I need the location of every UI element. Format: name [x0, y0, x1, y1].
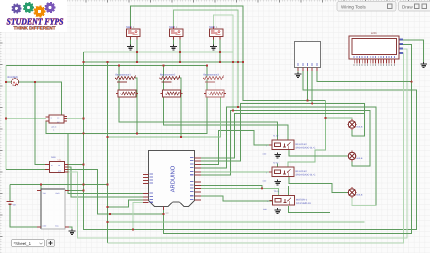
wire battery loop [10, 185, 41, 228]
wire btn1 signal drop [136, 37, 138, 63]
svg-text:IN: IN [51, 118, 52, 119]
wire btn1 gnd lead [130, 37, 132, 46]
wire rail y222 [108, 221, 365, 223]
wire relay3 top-right stub [288, 186, 290, 196]
wire btn2 signal drop [179, 37, 181, 63]
wire net-SW1 drop to relay2 [288, 101, 326, 168]
wire sensor3 top lead [206, 66, 208, 77]
wire relay3 top-left to arduino [201, 188, 279, 195]
push button SW2 [169, 25, 183, 39]
svg-text:LCD: LCD [371, 32, 377, 35]
wire sensor1 right drop [135, 78, 137, 134]
push button SW3 [209, 25, 223, 39]
wire U5 light input [6, 118, 46, 120]
ground under module M1 [69, 229, 76, 234]
battery B1 Vin [7, 202, 16, 206]
wire U5 light output [67, 118, 84, 120]
wire sensor2 mid lead [163, 80, 165, 91]
wire sensor3 right column [108, 97, 221, 137]
svg-text:Wiring Tools: Wiring Tools [341, 4, 366, 9]
wire arduino pin D11 to v107 [108, 200, 144, 207]
svg-text:T3 rly: T3 rly [274, 190, 279, 193]
svg-text:GND: GND [263, 153, 267, 155]
svg-text:flamesensor2: flamesensor2 [160, 73, 175, 76]
svg-text:TXD: TXD [43, 193, 46, 195]
svg-text:VCC: VCC [55, 225, 59, 227]
svg-text:flamesensor3: flamesensor3 [204, 73, 219, 76]
svg-text:GND: GND [58, 170, 61, 172]
buzzer LS1 [8, 76, 19, 86]
wire sensor1 mid lead [118, 80, 120, 91]
wire module PWR out [69, 190, 84, 192]
wire IC2 pin2 lead [6, 169, 45, 171]
svg-text:I: I [267, 200, 268, 202]
svg-text:MOTOR-1: MOTOR-1 [296, 199, 307, 202]
wire arduino D7 stub line [201, 186, 262, 189]
flame sensor R3 [203, 73, 226, 97]
wire relay1 top-right to sensor2 [164, 97, 289, 140]
wire lamp1 feed [326, 118, 353, 120]
svg-text:r1: r1 [53, 129, 54, 131]
relay K2 [263, 161, 316, 182]
wire left vertical light [5, 66, 7, 170]
ground under module U3 [295, 72, 302, 77]
svg-text:GND: GND [263, 209, 267, 211]
svg-text:Vin: Vin [13, 203, 16, 206]
wire relay2 output to lamp3 [289, 177, 348, 193]
svg-text:SRD-05VDC-SL-C: SRD-05VDC-SL-C [296, 146, 316, 149]
svg-text:GND: GND [263, 180, 267, 182]
wire arduino bottom gnd to LCD pin2 [164, 45, 412, 234]
wire relay2 coil input [201, 171, 269, 173]
relay K3 [263, 190, 311, 211]
module M1 (power box) [37, 189, 69, 229]
svg-text:GND: GND [43, 225, 47, 227]
svg-text:Draw: Draw [402, 4, 413, 9]
wire net-SW1 top loop [131, 6, 326, 101]
svg-text:BULB: BULB [357, 126, 363, 129]
toolbar panel Wiring Tools [337, 2, 396, 12]
wire v107 vertical [107, 62, 109, 243]
wire sensor3 mid lead [206, 80, 208, 91]
svg-text:VO: VO [58, 165, 60, 167]
wire lcd pin1 to gnd [399, 40, 424, 63]
wire arduino D0 frame loop B [201, 114, 365, 158]
svg-text:flamesensor1: flamesensor1 [116, 73, 131, 76]
svg-text:xU5-3v: xU5-3v [51, 126, 57, 128]
wire sensor2 top lead [163, 66, 165, 77]
svg-text:BULB: BULB [357, 157, 363, 160]
svg-text:IN: IN [51, 165, 52, 167]
wire module TX stub up [40, 185, 42, 190]
svg-text:THINK DIFFERENT: THINK DIFFERENT [14, 25, 56, 30]
wire rail y243 light to LCD pin4 [108, 53, 404, 243]
wire gsm pin4 drop [311, 68, 313, 104]
ground under relay K1 [274, 153, 281, 158]
wire IC2 out3 to arduino gnd [69, 170, 164, 215]
wire relay2 top stub [277, 164, 279, 168]
wire gsm pin1 gnd lead [297, 68, 299, 73]
lamp LA3 [348, 187, 362, 198]
svg-text:SRD-05VDC-SL-C: SRD-05VDC-SL-C [296, 173, 316, 176]
svg-text:I: I [267, 145, 268, 147]
wire relay1 coil input [201, 131, 269, 165]
wire btn2 gnd lead [173, 37, 175, 46]
arduino U1 [143, 151, 201, 214]
module U3 (sim/bluetooth) [295, 42, 321, 72]
LCD display U4 [349, 32, 403, 66]
wire sensor1 top lead [118, 66, 120, 77]
ground under SW1 [127, 45, 134, 50]
push button SW1 [126, 25, 140, 39]
svg-text:ARDUINO: ARDUINO [169, 166, 175, 193]
power module U2 [45, 157, 69, 173]
wire arduino pin light [133, 203, 143, 230]
ground under SW3 [210, 45, 217, 50]
svg-text:1: 1 [133, 26, 135, 29]
wire gsm pin5 loop [317, 68, 412, 82]
ground under SW2 [170, 45, 177, 50]
wire sensor3 column to arduino [68, 97, 207, 193]
wire rail y66 sensors supply [6, 65, 207, 67]
wire arduino D2 frame loop A [201, 104, 365, 161]
svg-text:I: I [267, 172, 268, 174]
lamp LA2 [348, 151, 362, 162]
logo Student FYPS [0, 0, 67, 32]
svg-text:RELAY-5V: RELAY-5V [296, 170, 307, 173]
wire sensor2 right drop [180, 78, 182, 137]
wire relay3 coil input [201, 196, 273, 201]
sheet tab Sheet_1 [12, 240, 55, 247]
svg-text:GND: GND [166, 212, 169, 214]
wire IC2 out4 light loop to LCD [69, 49, 408, 238]
svg-text:1: 1 [216, 26, 218, 29]
wire relay3 output [289, 206, 330, 213]
wire big loop v83/bottom rail/right [84, 52, 417, 230]
svg-text:OUT: OUT [57, 121, 60, 122]
wire U5 dark loop [46, 121, 84, 133]
svg-text:BUZZER: BUZZER [8, 76, 18, 79]
svg-text:*Sheet_1: *Sheet_1 [14, 241, 32, 245]
svg-text:PWR: PWR [51, 157, 56, 159]
ground under relay K3 [274, 208, 281, 213]
wire lamp3 bottom [352, 197, 376, 206]
wire rail y51 [84, 51, 234, 53]
svg-text:PWR: PWR [56, 193, 60, 195]
svg-text:SW1: SW1 [126, 25, 132, 28]
svg-text:DC-PUMP-5V: DC-PUMP-5V [296, 202, 311, 205]
wire gsm pin3 drop [307, 68, 309, 101]
flame sensor R2 [160, 73, 183, 97]
wire IC2 out2 to arduino 5V [69, 167, 144, 197]
wire battery top rail [10, 184, 108, 186]
ground under relay K2 [274, 180, 281, 185]
svg-text:5-2A: 5-2A [58, 159, 62, 161]
svg-text:SW3: SW3 [209, 25, 215, 28]
wire relay1 top-left to sensor1 [119, 97, 278, 140]
wire buzzer out to U5 top [19, 82, 62, 115]
wire buzzer branch to IC2 [35, 82, 45, 165]
svg-text:SW2: SW2 [169, 25, 175, 28]
wire btn3 gnd lead [213, 37, 215, 46]
flame sensor R1 [115, 73, 138, 97]
toolbar panel Draw [399, 2, 430, 12]
svg-text:RELAY-5V: RELAY-5V [296, 143, 307, 146]
svg-text:T1 rly: T1 rly [273, 134, 278, 137]
wire btn3 signal drop [219, 37, 221, 63]
wire net-SW2 top loop [174, 10, 239, 107]
wire relay1 output to lamp2 [289, 150, 348, 156]
module U5 [46, 115, 68, 131]
wire arduino D3 lamp3 frame [201, 107, 376, 205]
wire IC2 out1 [69, 164, 84, 166]
svg-text:T2 rly: T2 rly [273, 161, 278, 164]
lamp LA1 [348, 119, 362, 130]
wire buzzer left lead [6, 81, 12, 83]
svg-text:1: 1 [176, 26, 178, 29]
wire arduino D5 lamp2 frame [201, 111, 370, 176]
wire rail y62 [84, 61, 244, 63]
ground for LCD [420, 62, 427, 67]
svg-text:BULB: BULB [357, 194, 363, 197]
svg-text:VCC: VCC [57, 118, 60, 119]
wire net-SW3 top loop [214, 15, 234, 111]
relay K1 [263, 134, 316, 155]
wire module gnd lead [69, 227, 72, 230]
